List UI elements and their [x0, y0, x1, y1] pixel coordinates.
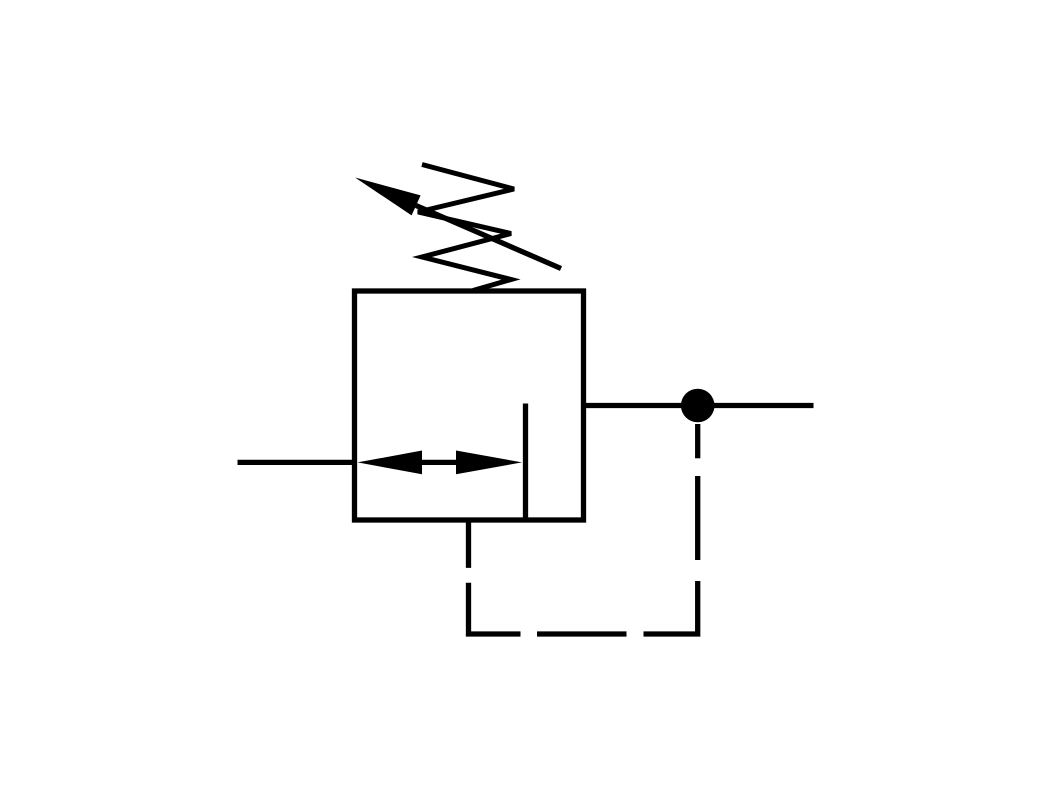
wire: pilot line dash (right vertical middle) — [695, 476, 700, 560]
wire: left port line P — [238, 460, 358, 465]
adjustment arrow head — [355, 178, 421, 216]
wire: pilot line dash (right vertical bottom corner L) — [644, 581, 698, 634]
flow arrow right head — [456, 451, 522, 475]
spring (adjustable) zigzag — [418, 165, 514, 291]
wire: right port line A — [584, 403, 814, 408]
wire: internal vertical seat line — [523, 404, 528, 521]
wire: pilot line dash (bottom left corner L) — [469, 583, 521, 634]
flow arrow left head — [358, 451, 423, 475]
adjustment arrow shaft — [416, 206, 561, 269]
valve body box — [355, 291, 584, 520]
wire: pilot line dash (below junction dot) — [695, 424, 700, 458]
wire: pilot line dash (below box) — [466, 520, 471, 568]
junction dot node — [681, 389, 715, 423]
wire: pilot line dash (bottom horizontal middle) — [537, 631, 627, 636]
wire: internal flow path shaft — [380, 460, 500, 465]
